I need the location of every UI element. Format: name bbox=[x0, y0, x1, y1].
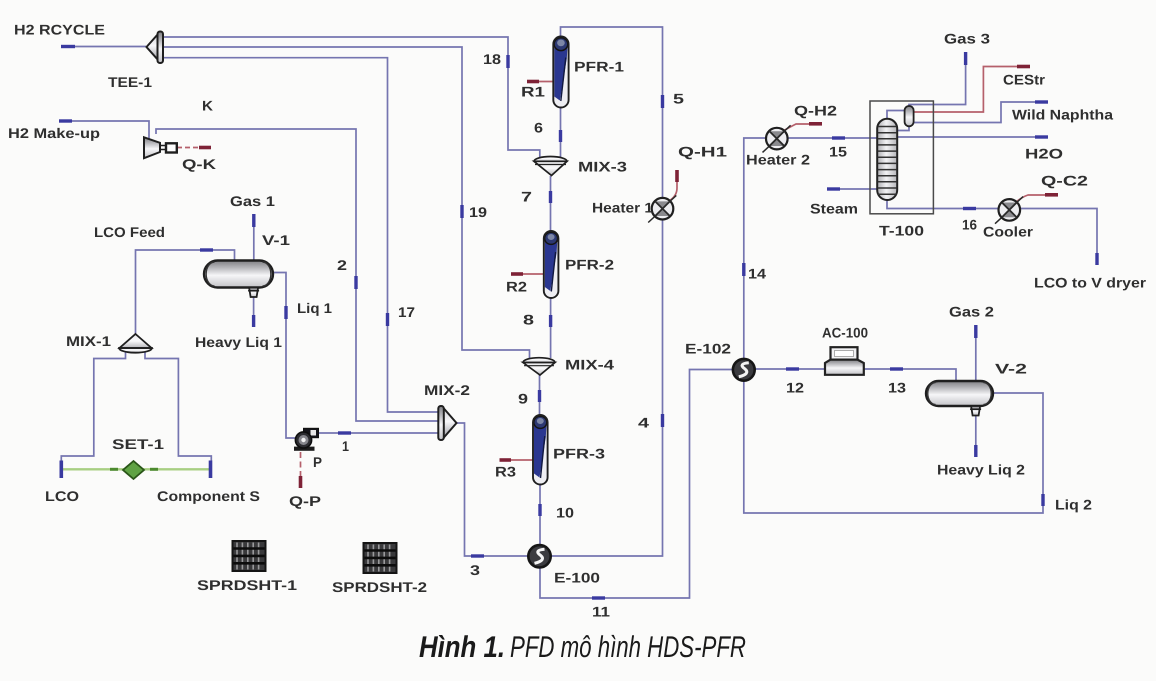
svg-text:V-1: V-1 bbox=[262, 232, 290, 248]
wire Gas 3 stream bbox=[909, 52, 966, 106]
svg-text:Component S: Component S bbox=[157, 488, 260, 504]
tick stream 1 bbox=[338, 431, 351, 434]
tick stream 15 bbox=[832, 136, 845, 139]
svg-text:SET-1: SET-1 bbox=[112, 436, 164, 452]
wire Heater 2 outlet stream 15 bbox=[787, 137, 877, 139]
svg-text:Heater 1: Heater 1 bbox=[592, 200, 653, 216]
svg-text:7: 7 bbox=[521, 189, 532, 205]
energy stream R2 bbox=[511, 273, 544, 275]
wire T-100 overhead vapour line bbox=[887, 111, 905, 120]
compressor K bbox=[144, 137, 177, 158]
svg-text:P: P bbox=[313, 454, 322, 470]
svg-text:5: 5 bbox=[673, 91, 684, 107]
tick stream 11 bbox=[592, 596, 605, 599]
svg-text:2: 2 bbox=[337, 257, 347, 273]
energy stream Q-H1 bbox=[669, 170, 677, 201]
energy stream Q-P bbox=[300, 452, 302, 488]
svg-text:10: 10 bbox=[556, 505, 574, 521]
svg-text:Gas 3: Gas 3 bbox=[944, 31, 990, 47]
tick stream 18 bbox=[506, 55, 509, 68]
wire Cooler outlet LCO to V dryer stream bbox=[1020, 209, 1097, 266]
wire MIX-4 outlet stream 9 bbox=[539, 375, 541, 416]
vessel V-2 (horizontal drum) bbox=[926, 381, 993, 406]
svg-text:MIX-2: MIX-2 bbox=[424, 382, 470, 398]
tick LCO Feed bbox=[200, 248, 213, 251]
svg-text:Steam: Steam bbox=[810, 201, 858, 217]
wire E-102 outlet stream 12 to AC-100 to stream 13 bbox=[755, 369, 957, 381]
svg-text:E-102: E-102 bbox=[685, 341, 731, 357]
wire V-2 Gas 2 stream bbox=[975, 325, 977, 381]
signal line SET-1 (green) bbox=[62, 468, 210, 470]
wire MIX-1 right inlet leg bbox=[145, 351, 211, 461]
tick stream 4 bbox=[661, 414, 664, 427]
spreadsheet icon SPRDSHT-2 bbox=[364, 543, 397, 573]
svg-text:E-100: E-100 bbox=[554, 570, 600, 586]
tick stream 7 bbox=[549, 191, 552, 203]
tick Wild Naphtha arrow bbox=[1035, 100, 1048, 103]
svg-text:3: 3 bbox=[470, 562, 480, 578]
svg-text:Q-H1: Q-H1 bbox=[678, 144, 727, 160]
tick Steam arrow bbox=[827, 187, 840, 190]
wire MIX-1 left inlet leg bbox=[61, 351, 125, 461]
svg-text:Liq 2: Liq 2 bbox=[1055, 497, 1092, 513]
energy stream Q-C2 bbox=[1016, 195, 1058, 202]
svg-text:Q-C2: Q-C2 bbox=[1041, 173, 1088, 189]
svg-text:H2O: H2O bbox=[1025, 146, 1063, 162]
svg-text:Hình 1.: Hình 1. bbox=[419, 631, 505, 664]
column T-100 outer box bbox=[870, 101, 933, 214]
energy stream R1 bbox=[527, 81, 553, 83]
svg-text:1: 1 bbox=[342, 438, 349, 454]
tick H2 RCYCLE arrow bbox=[61, 45, 75, 48]
svg-text:17: 17 bbox=[398, 304, 415, 320]
wire T-100 H2O stream bbox=[897, 136, 1048, 138]
tick stream 9 bbox=[538, 390, 541, 402]
mixer MIX-4 (funnel pointing down) bbox=[523, 358, 555, 375]
svg-text:PFR-1: PFR-1 bbox=[574, 59, 624, 75]
tee TEE-1 (cone pointing left) bbox=[147, 32, 164, 64]
svg-text:R3: R3 bbox=[495, 464, 516, 480]
svg-text:9: 9 bbox=[518, 391, 528, 407]
svg-text:TEE-1: TEE-1 bbox=[108, 74, 152, 90]
tick Heavy Liq 1 arrow bbox=[252, 315, 255, 327]
mixer MIX-1 (cone pointing up) bbox=[119, 334, 152, 353]
svg-text:AC-100: AC-100 bbox=[822, 325, 868, 341]
heat exchanger E-100 (dark circle with S) bbox=[528, 545, 550, 567]
tick LCO to V dryer arrow bbox=[1095, 253, 1098, 265]
svg-text:CEStr: CEStr bbox=[1003, 72, 1046, 88]
svg-text:Q-H2: Q-H2 bbox=[794, 103, 837, 119]
wire pump P outlet stream 1 bbox=[314, 432, 438, 434]
svg-text:T-100: T-100 bbox=[879, 223, 924, 239]
tick Gas 2 arrow bbox=[974, 325, 977, 338]
wire Wild Naphtha stream bbox=[914, 102, 1049, 123]
tick stream 12 bbox=[786, 367, 799, 370]
heat exchanger Cooler (circle with X) bbox=[995, 197, 1023, 224]
column T-100 tray tower bbox=[877, 119, 897, 200]
wire Steam stream bbox=[827, 188, 877, 190]
wire E-100 hot outlet stream 4 bbox=[551, 220, 663, 556]
wire Gas 1 stream bbox=[253, 214, 255, 260]
svg-text:15: 15 bbox=[829, 144, 847, 160]
mixer MIX-3 (funnel pointing down) bbox=[534, 157, 567, 176]
svg-text:MIX-3: MIX-3 bbox=[578, 159, 627, 175]
tick stream 13 bbox=[890, 367, 903, 370]
tick stream 14 bbox=[742, 263, 745, 276]
air cooler AC-100 bbox=[825, 347, 864, 375]
svg-text:MIX-1: MIX-1 bbox=[66, 333, 111, 349]
svg-text:19: 19 bbox=[469, 204, 487, 220]
vessel boot V-1 boot bbox=[248, 288, 259, 298]
svg-text:14: 14 bbox=[748, 266, 766, 282]
wire MIX-3 outlet stream 7 bbox=[550, 176, 552, 232]
svg-text:11: 11 bbox=[592, 604, 610, 620]
wire H2 Make-up stream bbox=[59, 121, 149, 139]
svg-text:SPRDSHT-2: SPRDSHT-2 bbox=[332, 579, 427, 595]
svg-text:Heater 2: Heater 2 bbox=[746, 152, 810, 168]
energy stream CEStr bbox=[914, 67, 1031, 113]
energy stream Q-H2 bbox=[783, 124, 822, 131]
wire Liq 1 stream bbox=[273, 273, 296, 439]
svg-text:V-2: V-2 bbox=[995, 361, 1027, 377]
energy stream R3 bbox=[500, 459, 534, 461]
wire E-102 outlet stream 14 bbox=[744, 138, 766, 360]
svg-text:12: 12 bbox=[786, 380, 804, 396]
svg-text:Q-P: Q-P bbox=[289, 493, 321, 509]
svg-text:H2 RCYCLE: H2 RCYCLE bbox=[14, 22, 105, 38]
svg-text:Gas 1: Gas 1 bbox=[230, 193, 275, 209]
wire PFR-2 outlet stream 8 bbox=[550, 297, 552, 358]
svg-text:Liq 1: Liq 1 bbox=[297, 300, 332, 316]
spreadsheet icon SPRDSHT-1 bbox=[233, 541, 266, 571]
wire PFR-3 outlet stream 10 bbox=[539, 484, 541, 546]
heat exchanger Heater 1 (circle with X) bbox=[648, 195, 676, 222]
SET-1 green line left end bar (LCO) bbox=[60, 461, 64, 479]
tick Liq 1 bbox=[284, 306, 287, 319]
svg-text:Heavy Liq 1: Heavy Liq 1 bbox=[195, 334, 282, 350]
svg-text:LCO: LCO bbox=[45, 488, 79, 504]
wire MIX-2 outlet stream 3 bbox=[456, 423, 529, 556]
wire H2 RCYCLE stream bbox=[62, 46, 146, 48]
wire T-100 bottoms stream 16 bbox=[887, 200, 998, 209]
heat exchanger Heater 2 (circle with X) bbox=[763, 125, 791, 152]
svg-text:18: 18 bbox=[483, 51, 501, 67]
wire condenser reflux line bbox=[897, 127, 909, 131]
reactor PFR-2 (vertical PFR pill) bbox=[544, 231, 559, 298]
reactor PFR-3 (vertical PFR pill) bbox=[533, 415, 548, 485]
svg-text:PFD mô hình HDS-PFR: PFD mô hình HDS-PFR bbox=[510, 631, 746, 664]
svg-text:K: K bbox=[202, 98, 213, 114]
pump P bbox=[294, 428, 319, 451]
svg-text:8: 8 bbox=[523, 312, 534, 328]
tick stream 5 bbox=[661, 95, 664, 108]
wire TEE-1 outlet to stream 17 bbox=[163, 58, 438, 412]
vessel V-1 (horizontal drum) bbox=[204, 261, 273, 288]
svg-text:16: 16 bbox=[962, 217, 977, 233]
svg-text:Cooler: Cooler bbox=[983, 224, 1034, 240]
wire PFR-1 outlet stream 6 bbox=[560, 107, 562, 159]
tick Gas 3 arrow bbox=[964, 52, 967, 65]
tick stream 16 bbox=[963, 207, 976, 210]
svg-text:PFR-2: PFR-2 bbox=[565, 257, 614, 273]
svg-text:MIX-4: MIX-4 bbox=[565, 357, 614, 373]
vessel boot V-2 boot bbox=[970, 406, 981, 416]
tick stream 6 bbox=[559, 130, 562, 142]
svg-text:LCO Feed: LCO Feed bbox=[94, 224, 165, 240]
reactor PFR-1 (vertical PFR pill) bbox=[553, 37, 568, 108]
svg-text:SPRDSHT-1: SPRDSHT-1 bbox=[197, 577, 297, 593]
wire TEE-1 outlet to stream 18 bbox=[163, 37, 540, 158]
wire V-2 Liq 2 stream to E-102 bbox=[744, 381, 1043, 513]
tick stream 2 bbox=[354, 276, 357, 289]
svg-text:Wild Naphtha: Wild Naphtha bbox=[1012, 107, 1113, 123]
wire compressor K outlet stream 2 bbox=[156, 129, 438, 421]
tick stream 3 bbox=[471, 554, 484, 557]
tick Liq 2 bbox=[1041, 494, 1044, 506]
svg-text:PFR-3: PFR-3 bbox=[553, 446, 605, 462]
SET-1 diamond bbox=[123, 461, 144, 479]
wire E-100 cold outlet stream 11 bbox=[540, 370, 734, 599]
svg-text:13: 13 bbox=[888, 380, 906, 396]
tick stream 19 bbox=[460, 205, 463, 218]
tick H2O arrow bbox=[1035, 135, 1048, 138]
tick Heavy Liq 2 arrow bbox=[974, 445, 977, 457]
condenser drum on T-100 bbox=[905, 106, 914, 126]
tick stream 10 bbox=[538, 504, 541, 516]
svg-text:LCO to V dryer: LCO to V dryer bbox=[1034, 275, 1147, 291]
tick Gas 1 arrow bbox=[252, 214, 255, 227]
wire Heater 1 outlet stream 5 bbox=[561, 27, 663, 198]
heat exchanger E-102 (dark circle with S) bbox=[733, 359, 755, 381]
wire V-2 Heavy Liq 2 stream bbox=[975, 416, 977, 457]
svg-text:R2: R2 bbox=[506, 279, 527, 295]
tick stream 17 bbox=[386, 313, 389, 326]
svg-text:H2 Make-up: H2 Make-up bbox=[8, 125, 100, 141]
wire LCO Feed stream bbox=[136, 250, 235, 334]
svg-text:Gas 2: Gas 2 bbox=[949, 304, 994, 320]
wire TEE-1 outlet to stream 19 bbox=[163, 47, 530, 358]
SET-1 green line right end bar (Component S) bbox=[209, 461, 213, 479]
energy stream Q-K bbox=[177, 147, 211, 149]
svg-text:4: 4 bbox=[638, 415, 649, 431]
tick stream 8 bbox=[549, 315, 552, 327]
tick H2 Make-up arrow bbox=[59, 119, 72, 122]
svg-text:6: 6 bbox=[534, 120, 543, 136]
wire Heavy Liq 1 stream bbox=[253, 296, 255, 327]
svg-text:R1: R1 bbox=[521, 84, 545, 100]
svg-text:Q-K: Q-K bbox=[182, 156, 216, 172]
mixer MIX-2 (cone pointing right) bbox=[438, 406, 456, 440]
svg-text:Heavy Liq 2: Heavy Liq 2 bbox=[937, 462, 1025, 478]
